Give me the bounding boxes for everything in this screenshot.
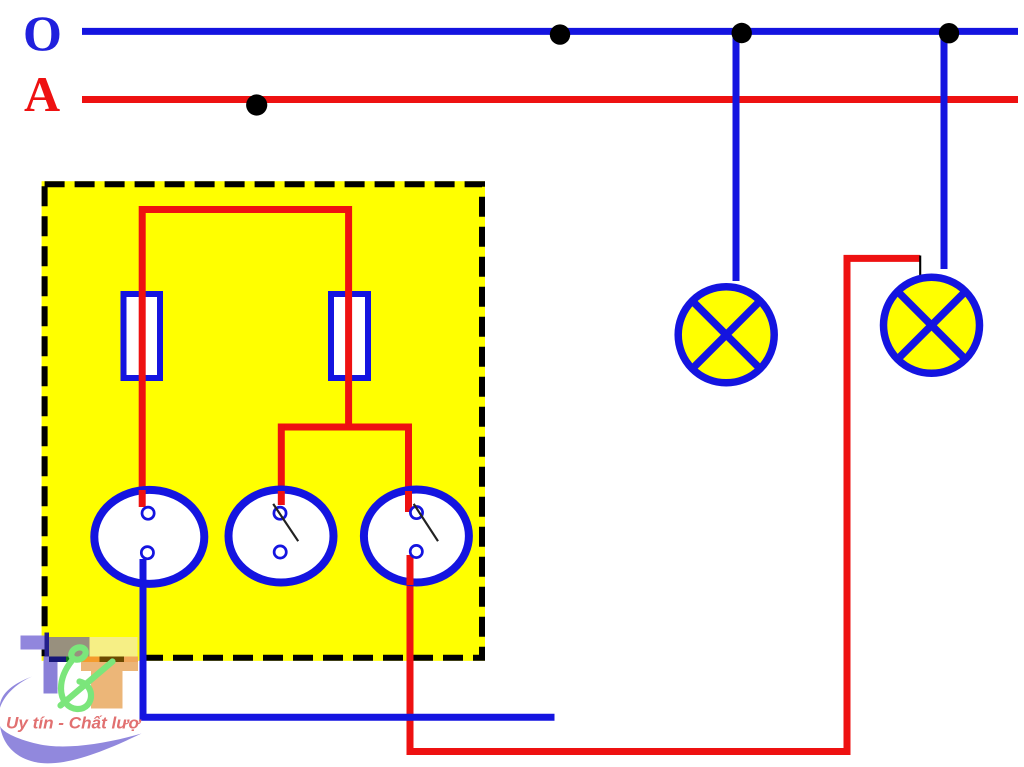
svg-text:O: O	[23, 5, 62, 61]
svg-text:Uy tín - Chất lượ: Uy tín - Chất lượ	[6, 714, 142, 733]
svg-text:A: A	[24, 66, 60, 122]
